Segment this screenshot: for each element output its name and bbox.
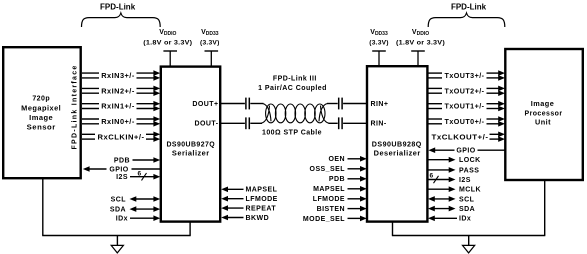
capacitor C3 (AC coupling, + line, deserializer side) — [339, 98, 342, 110]
wire: serializer ground down — [189, 222, 191, 236]
svg-text:TxOUT0+/-: TxOUT0+/- — [445, 119, 485, 126]
brace: FPD-Link (sensor to serializer) — [82, 3, 161, 27]
wire pair TxOUT1+/- (deserializer to image processor) — [428, 101, 505, 111]
svg-text:I2S: I2S — [459, 177, 471, 184]
capacitor C1 (AC coupling, + line, serializer side) — [246, 98, 249, 110]
wire: sensor ground down — [42, 179, 44, 236]
wire pair RxIN1+/- (sensor to serializer) — [82, 101, 160, 111]
svg-text:6: 6 — [137, 170, 141, 177]
label: FPD-Link III / 1 Pair/AC Coupled — [258, 75, 327, 91]
svg-text:MCLK: MCLK — [459, 187, 481, 194]
svg-text:(3.3V): (3.3V) — [200, 39, 220, 46]
svg-text:REPEAT: REPEAT — [246, 206, 277, 213]
svg-text:TxOUT1+/-: TxOUT1+/- — [445, 104, 485, 111]
svg-text:Megapixel: Megapixel — [21, 105, 61, 112]
svg-text:100Ω STP Cable: 100Ω STP Cable — [262, 129, 322, 136]
wire pair RxCLKIN+/- (sensor to serializer) — [82, 132, 160, 142]
svg-text:IDx: IDx — [459, 216, 471, 223]
wire PASS (deserializer right side) — [428, 167, 480, 174]
wire BKWD (input to serializer, right side) — [221, 215, 269, 222]
svg-text:FPD-Link Interface: FPD-Link Interface — [72, 66, 79, 150]
svg-text:BKWD: BKWD — [246, 215, 270, 222]
wire: right ground rail — [392, 235, 545, 237]
ground symbol (right) — [463, 236, 475, 253]
svg-text:6: 6 — [429, 172, 433, 179]
svg-text:RxIN1+/-: RxIN1+/- — [101, 104, 135, 111]
wire BISTEN (input to deserializer) — [317, 206, 367, 213]
wire DOUT+ to coupling cap C1 — [221, 103, 245, 105]
wire GPIO (image processor to deserializer) — [428, 147, 505, 154]
deserializer U2: DS90UB928Q — [367, 66, 427, 221]
svg-text:DS90UB927Q: DS90UB927Q — [166, 141, 215, 148]
svg-text:(1.8V or 3.3V): (1.8V or 3.3V) — [143, 39, 192, 46]
svg-text:Deserializer: Deserializer — [374, 151, 421, 158]
svg-text:LFMODE: LFMODE — [246, 196, 278, 203]
svg-text:SDA: SDA — [459, 206, 475, 213]
svg-text:OSS_SEL: OSS_SEL — [310, 166, 346, 173]
wire: image processor ground down — [544, 181, 546, 236]
svg-text:RxIN3+/-: RxIN3+/- — [101, 73, 135, 80]
svg-text:DOUT-: DOUT- — [194, 121, 218, 128]
svg-text:(3.3V): (3.3V) — [369, 39, 389, 46]
svg-text:VDDIO: VDDIO — [159, 29, 176, 37]
svg-text:RIN-: RIN- — [371, 121, 387, 128]
svg-text:RxIN0+/-: RxIN0+/- — [101, 119, 135, 126]
wire: deserializer ground down — [392, 222, 394, 236]
svg-text:FPD-Link: FPD-Link — [451, 3, 487, 12]
wire GPIO (serializer to sensor) — [83, 166, 160, 173]
wire twisted pair to coupling cap C4 — [329, 122, 338, 124]
svg-text:VDD33: VDD33 — [370, 29, 388, 37]
ground symbol (left) — [111, 236, 123, 253]
label: 100 ohm STP Cable — [262, 129, 322, 136]
svg-text:PDB: PDB — [329, 176, 345, 183]
svg-text:MAPSEL: MAPSEL — [313, 186, 345, 193]
wire pair RxIN2+/- (sensor to serializer) — [82, 86, 160, 96]
wire SDA (bidirectional, serializer) — [110, 206, 160, 213]
block: 720p Megapixel Image Sensor — [3, 47, 81, 178]
svg-text:GPIO: GPIO — [456, 148, 475, 155]
svg-text:1 Pair/AC Coupled: 1 Pair/AC Coupled — [258, 85, 327, 92]
svg-text:LOCK: LOCK — [459, 157, 481, 164]
wire pair TxOUT0+/- (deserializer to image processor) — [428, 116, 505, 126]
wire LFMODE (input to serializer, right side) — [221, 196, 278, 203]
wire C3 to RIN+ — [343, 103, 367, 105]
svg-text:Unit: Unit — [535, 120, 551, 127]
svg-text:FPD-Link: FPD-Link — [100, 3, 136, 12]
svg-text:BISTEN: BISTEN — [317, 206, 345, 213]
svg-text:720p: 720p — [32, 96, 50, 103]
svg-text:(1.8V or 3.3V): (1.8V or 3.3V) — [396, 39, 445, 46]
svg-text:IDx: IDx — [116, 216, 128, 223]
power pin VDDIO (serializer) — [143, 29, 192, 66]
wire SCL (deserializer right side) — [428, 196, 475, 203]
twisted pair: 100 ohm STP cable — [261, 104, 329, 124]
svg-text:SCL: SCL — [111, 196, 127, 203]
wire PDB (input to deserializer) — [329, 176, 367, 183]
wire pair TxCLKOUT+/- (deserializer to image processor) — [432, 132, 506, 142]
wire MODE_SEL (input to deserializer) — [303, 216, 367, 223]
wire IDx (deserializer right side) — [428, 216, 471, 223]
pin label RIN- — [371, 121, 387, 128]
pin label DOUT+ — [192, 101, 218, 108]
svg-text:TxOUT3+/-: TxOUT3+/- — [445, 73, 485, 80]
block: Image Processor Unit — [505, 49, 583, 180]
serializer U1: DS90UB927Q — [161, 67, 220, 222]
wire LFMODE (input to deserializer) — [313, 196, 367, 203]
svg-text:PDB: PDB — [114, 157, 130, 164]
svg-text:SDA: SDA — [110, 206, 126, 213]
wire PDB (input to serializer) — [114, 157, 160, 164]
svg-text:MAPSEL: MAPSEL — [246, 187, 278, 194]
pin label RIN+ — [371, 101, 389, 108]
wire MCLK (deserializer right side) — [428, 186, 481, 193]
wire pair TxOUT3+/- (deserializer to image processor) — [428, 70, 505, 80]
wire C4 to RIN- — [343, 122, 367, 124]
svg-text:OEN: OEN — [328, 156, 345, 163]
wire I2S (deserializer right side) — [428, 172, 471, 184]
svg-text:Image: Image — [531, 101, 555, 108]
wire OEN (input to deserializer) — [328, 156, 366, 163]
wire C1 to twisted pair — [250, 103, 263, 105]
wire I2S bus x6 (input to serializer) — [116, 170, 160, 181]
wire SDA (deserializer right side) — [428, 206, 475, 213]
label: FPD-Link Interface (vertical, inside sensor right edge) — [72, 66, 79, 150]
power pin VDDIO (deserializer) — [396, 29, 445, 66]
svg-text:SCL: SCL — [459, 196, 475, 203]
svg-text:VDD33: VDD33 — [201, 29, 219, 37]
power pin VDD33 (serializer) — [200, 29, 220, 66]
wire C2 to twisted pair — [250, 122, 262, 124]
wire SCL (bidirectional, serializer) — [111, 196, 161, 203]
wire pair RxIN0+/- (sensor to serializer) — [82, 116, 160, 126]
svg-text:DS90UB928Q: DS90UB928Q — [372, 141, 422, 148]
pin label DOUT- — [194, 121, 218, 128]
svg-text:RIN+: RIN+ — [371, 101, 389, 108]
svg-text:FPD-Link III: FPD-Link III — [273, 75, 317, 82]
svg-text:Serializer: Serializer — [172, 151, 210, 158]
svg-text:RxCLKIN+/-: RxCLKIN+/- — [98, 134, 145, 141]
wire twisted pair to coupling cap C3 — [327, 103, 338, 105]
wire pair TxOUT2+/- (deserializer to image processor) — [428, 86, 505, 96]
svg-text:Processor: Processor — [525, 110, 563, 117]
svg-text:Image: Image — [29, 115, 53, 122]
brace: FPD-Link (deserializer to image processor) — [428, 3, 505, 27]
wire OSS_SEL (input to deserializer) — [310, 166, 367, 173]
svg-text:PASS: PASS — [459, 167, 479, 174]
capacitor C4 (AC coupling, - line, deserializer side) — [339, 117, 342, 129]
svg-text:TxOUT2+/-: TxOUT2+/- — [445, 88, 485, 95]
svg-text:LFMODE: LFMODE — [313, 196, 345, 203]
wire IDx (input to serializer) — [116, 215, 160, 222]
svg-text:MODE_SEL: MODE_SEL — [303, 216, 345, 223]
power pin VDD33 (deserializer) — [369, 29, 389, 66]
wire MAPSEL (input to serializer, right side) — [221, 187, 277, 194]
wire DOUT- to coupling cap C2 — [221, 122, 245, 124]
wire MAPSEL (input to deserializer) — [313, 186, 367, 193]
capacitor C2 (AC coupling, - line, serializer side) — [246, 117, 249, 129]
svg-text:RxIN2+/-: RxIN2+/- — [101, 88, 135, 95]
wire: left ground rail — [42, 235, 191, 237]
wire LOCK (deserializer right side) — [428, 157, 481, 164]
svg-text:GPIO: GPIO — [109, 166, 128, 173]
svg-text:Sensor: Sensor — [27, 125, 56, 132]
svg-text:DOUT+: DOUT+ — [192, 101, 218, 108]
wire pair RxIN3+/- (sensor to serializer) — [82, 70, 160, 80]
wire REPEAT (input to serializer, right side) — [221, 205, 276, 212]
svg-text:TxCLKOUT+/-: TxCLKOUT+/- — [432, 134, 489, 141]
svg-text:I2S: I2S — [116, 174, 128, 181]
svg-text:VDDIO: VDDIO — [412, 29, 429, 37]
